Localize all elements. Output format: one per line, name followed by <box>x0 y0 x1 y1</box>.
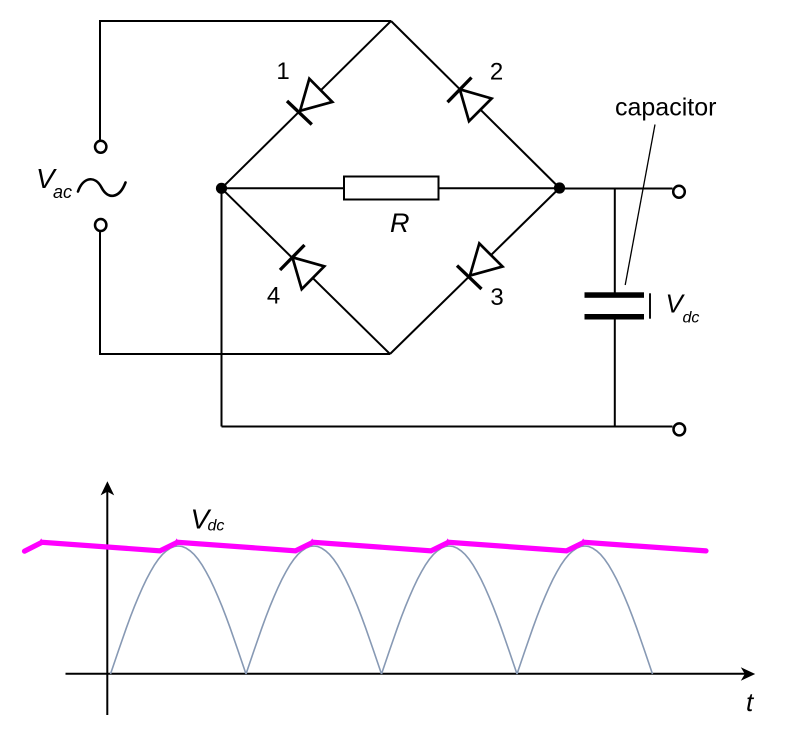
capacitor C bottom plate <box>585 314 645 320</box>
Vdc ripple peak nubs <box>38 538 586 543</box>
wire bridge branch bottom-right <box>390 188 560 354</box>
svg-text:4: 4 <box>267 283 280 310</box>
wire capacitor bottom lead <box>614 320 616 427</box>
label t <box>746 687 755 717</box>
svg-text:dc: dc <box>208 518 225 535</box>
Vac top terminal <box>95 141 106 153</box>
wire bridge branch top-right <box>391 21 560 188</box>
capacitor leader line <box>625 125 655 286</box>
x axis arrowhead <box>741 667 755 681</box>
capacitor voltage tick <box>649 293 651 318</box>
DC+ output terminal <box>673 186 685 198</box>
junction dot left <box>216 183 227 194</box>
capacitor label <box>615 94 716 122</box>
svg-text:t: t <box>746 687 755 717</box>
diode D1 <box>287 79 332 125</box>
y axis <box>106 489 108 715</box>
svg-text:dc: dc <box>683 310 700 327</box>
svg-text:R: R <box>390 208 410 238</box>
svg-text:2: 2 <box>490 59 503 86</box>
wire DC- horizontal to bottom terminal <box>222 426 673 428</box>
wire top horizontal to bridge top vertex <box>99 20 391 22</box>
Vdc ripple waveform <box>25 542 707 551</box>
y axis arrowhead <box>101 481 115 495</box>
label R <box>390 208 410 238</box>
diode D3 <box>457 243 503 289</box>
wire top-left vertical from Vac top terminal <box>99 21 101 140</box>
wire bridge branch bottom-left <box>222 188 391 354</box>
wire right horizontal to DC+ terminal <box>560 188 673 190</box>
capacitor C top plate <box>585 292 645 298</box>
resistor R body <box>344 177 439 200</box>
wire capacitor top lead <box>614 189 616 293</box>
label 3 <box>490 284 503 311</box>
wire bottom AC horizontal to bridge bottom vertex <box>99 353 390 355</box>
Vdc label (capacitor) <box>666 289 700 327</box>
Vdc label (graph) <box>191 504 225 535</box>
label 2 <box>490 59 503 86</box>
svg-text:capacitor: capacitor <box>615 94 716 122</box>
wire bridge branch top-left <box>222 21 392 188</box>
wire DC- vertical from left junction <box>221 188 223 426</box>
label 4 <box>267 283 280 310</box>
wire resistor right lead <box>439 187 560 189</box>
wire resistor left lead <box>222 187 345 189</box>
rectified sine hump 1 <box>111 546 247 674</box>
DC- output terminal <box>674 423 686 435</box>
svg-text:1: 1 <box>276 58 289 85</box>
diode D2 <box>448 78 492 122</box>
x axis <box>66 673 747 675</box>
svg-text:3: 3 <box>490 284 503 311</box>
Vac label <box>36 163 72 202</box>
label 1 <box>276 58 289 85</box>
rectified sine hump 4 <box>517 546 653 674</box>
rectified sine hump 2 <box>246 546 382 674</box>
AC source sine symbol <box>78 179 126 196</box>
svg-text:ac: ac <box>53 182 72 202</box>
diode D4 <box>280 245 324 289</box>
Vac bottom terminal <box>95 219 106 231</box>
rectified sine hump 3 <box>382 546 518 674</box>
junction dot right <box>554 182 565 193</box>
wire bottom-left vertical from Vac bottom terminal <box>99 232 101 356</box>
